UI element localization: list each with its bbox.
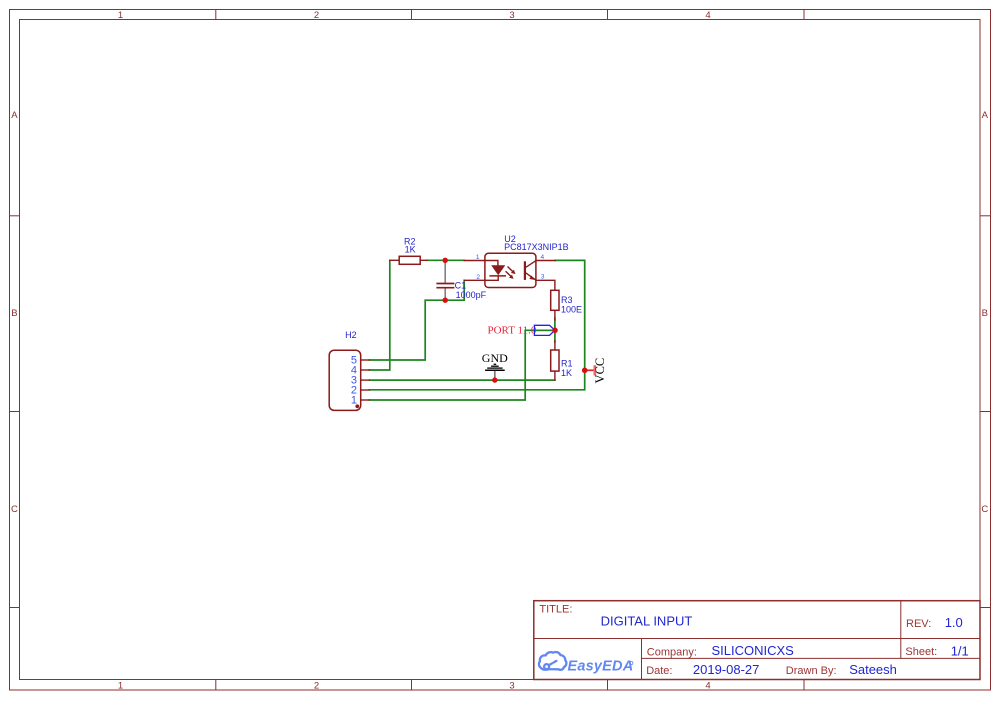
svg-text:100E: 100E xyxy=(561,304,582,314)
LED cathode lead xyxy=(485,276,498,280)
svg-text:3: 3 xyxy=(509,10,514,21)
transistor collector xyxy=(526,261,536,268)
light arrow 2 xyxy=(506,271,512,277)
wire net R2-right to U2 pin1 xyxy=(427,259,464,261)
node junction GND xyxy=(492,377,497,382)
wire net U2 pin4 to VCC to H2 pin2 xyxy=(370,260,585,389)
svg-text:1.0: 1.0 xyxy=(945,615,963,630)
svg-text:2: 2 xyxy=(314,10,319,21)
svg-text:1: 1 xyxy=(118,681,123,692)
ground GND xyxy=(482,351,508,379)
svg-text:1: 1 xyxy=(118,10,123,21)
svg-text:2019-08-27: 2019-08-27 xyxy=(693,662,760,677)
svg-text:3: 3 xyxy=(509,681,514,692)
node port junction xyxy=(552,328,558,334)
svg-text:B: B xyxy=(982,308,988,319)
svg-text:VCC: VCC xyxy=(593,358,607,384)
svg-text:R3: R3 xyxy=(561,295,573,305)
wire net R2-left to H2 pin4 xyxy=(370,260,390,370)
svg-text:PC817X3NIP1B: PC817X3NIP1B xyxy=(504,242,569,252)
svg-text:Sheet:: Sheet: xyxy=(905,646,937,658)
LED anode lead xyxy=(485,261,498,266)
svg-text:3: 3 xyxy=(541,274,545,281)
svg-text:1: 1 xyxy=(476,254,480,261)
power VCC xyxy=(585,358,607,384)
node junction C1 top xyxy=(443,258,448,263)
wire net H2 pin5 to C1 bottom to U2 pin2 xyxy=(370,280,465,360)
svg-text:Drawn By:: Drawn By: xyxy=(786,665,837,677)
svg-text:SILICONICXS: SILICONICXS xyxy=(712,643,795,658)
resistor R1 xyxy=(551,341,573,380)
svg-text:EasyEDA: EasyEDA xyxy=(568,659,634,675)
svg-text:C: C xyxy=(11,504,18,515)
H2 pin 3 stub xyxy=(361,379,370,381)
capacitor C1 xyxy=(436,262,486,300)
H2 pin 2 stub xyxy=(361,389,370,391)
resistor R3 xyxy=(551,290,582,320)
svg-text:2: 2 xyxy=(314,681,319,692)
svg-text:Sateesh: Sateesh xyxy=(849,662,897,677)
light arrow 1 xyxy=(508,267,514,273)
svg-text:1/1: 1/1 xyxy=(951,643,969,658)
svg-text:DIGITAL INPUT: DIGITAL INPUT xyxy=(601,613,693,628)
svg-text:1K: 1K xyxy=(561,368,572,378)
svg-text:TITLE:: TITLE: xyxy=(539,604,572,616)
transistor emitter xyxy=(526,273,536,280)
title block xyxy=(534,601,980,680)
svg-text:1000pF: 1000pF xyxy=(456,290,487,300)
svg-text:C1: C1 xyxy=(455,281,467,291)
svg-text:C: C xyxy=(981,504,988,515)
connector H2 xyxy=(329,330,369,411)
H2 pin-1 marker dot xyxy=(355,404,359,408)
wire net H2 pin3 to GND to R1 bottom xyxy=(370,379,555,381)
LED triangle xyxy=(491,265,505,275)
svg-text:1: 1 xyxy=(351,395,357,407)
H2 pin 5 stub xyxy=(361,359,370,361)
EasyEDA logo xyxy=(539,652,633,675)
wire net H2 pin1 to PORT junction xyxy=(370,330,555,400)
transistor base bar xyxy=(524,261,526,280)
svg-text:A: A xyxy=(11,110,18,121)
svg-text:Date:: Date: xyxy=(646,665,672,677)
wire R3 bottom to port junction to R1 top xyxy=(554,318,556,342)
svg-text:PORT 11.0: PORT 11.0 xyxy=(488,325,537,337)
svg-text:1K: 1K xyxy=(405,244,416,254)
op-amp style IC: optocoupler U2 PC817X3NIP1B xyxy=(464,234,568,290)
svg-text:4: 4 xyxy=(705,10,710,21)
LED cathode bar xyxy=(489,275,506,277)
H2 pin 4 stub xyxy=(361,369,370,371)
svg-text:GND: GND xyxy=(482,351,508,365)
resistor R2 xyxy=(390,236,427,264)
svg-text:R1: R1 xyxy=(561,358,573,368)
port flag PORT 11.0 xyxy=(488,325,555,337)
node junction C1 bottom xyxy=(443,298,448,303)
node junction VCC xyxy=(582,368,588,374)
svg-text:Company:: Company: xyxy=(647,646,697,658)
svg-text:A: A xyxy=(982,110,989,121)
svg-text:B: B xyxy=(11,308,17,319)
svg-text:2: 2 xyxy=(476,274,480,281)
svg-text:REV:: REV: xyxy=(906,618,931,630)
svg-text:H2: H2 xyxy=(345,330,357,340)
H2 pin 1 stub xyxy=(361,399,370,401)
svg-text:4: 4 xyxy=(541,254,545,261)
svg-text:4: 4 xyxy=(705,681,710,692)
